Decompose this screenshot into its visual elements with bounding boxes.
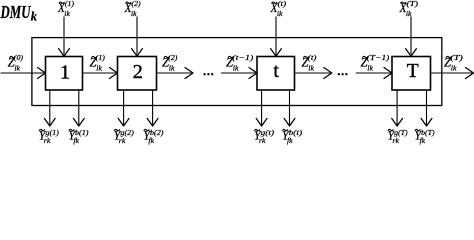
label Y_rk^g(2) xyxy=(114,127,135,145)
carry-over arrow Z_lk^(0) into box 1 xyxy=(1,68,46,79)
label Z_lk^(1) xyxy=(90,53,106,73)
svg-text:g(T): g(T) xyxy=(394,128,408,137)
svg-text:b(1): b(1) xyxy=(75,128,89,137)
ellipsis between box 2 and box t xyxy=(203,73,213,75)
svg-text:DMU: DMU xyxy=(0,2,31,22)
label Z_lk^(t) xyxy=(302,53,317,73)
outer system boundary box of DMU_k xyxy=(32,38,442,106)
svg-text:g(2): g(2) xyxy=(120,128,134,137)
svg-text:fk: fk xyxy=(148,136,154,145)
label Z_lk^(2) xyxy=(162,53,178,73)
svg-text:lk: lk xyxy=(14,64,20,73)
output arrow Y_fk^b(t) from box t xyxy=(284,91,295,127)
label Z_lk^(T-1) xyxy=(361,53,390,73)
svg-text:fk: fk xyxy=(420,136,426,145)
output arrow Y_fk^b(2) from box 2 xyxy=(147,91,158,127)
label X_ik^(1) xyxy=(57,0,74,18)
svg-text:lk: lk xyxy=(308,64,314,73)
label Y_fk^b(2) xyxy=(143,127,164,145)
process box T xyxy=(392,57,431,91)
input arrow X_ik^(t) into box t xyxy=(271,17,282,57)
svg-text:rk: rk xyxy=(44,136,51,145)
carry-over arrow Z_lk^(1) from box 1 to box 2 xyxy=(83,68,118,79)
input arrow X_ik^(2) into box 2 xyxy=(132,17,143,57)
svg-text:(t−1): (t−1) xyxy=(232,53,253,62)
svg-text:(0): (0) xyxy=(14,53,23,62)
label X_ik^(t) xyxy=(270,0,287,18)
DMU_k label xyxy=(0,2,38,23)
label Z_lk^(0) xyxy=(8,53,24,73)
output arrow Y_fk^b(1) from box 1 xyxy=(73,91,84,127)
svg-text:(t): (t) xyxy=(308,53,317,62)
svg-text:ik: ik xyxy=(64,9,70,18)
svg-text:t: t xyxy=(273,60,279,82)
svg-text:2: 2 xyxy=(133,61,143,83)
svg-text:T: T xyxy=(407,61,419,82)
label Y_fk^b(T) xyxy=(415,127,435,145)
svg-text:(2): (2) xyxy=(168,53,177,62)
svg-text:rk: rk xyxy=(393,136,400,145)
svg-text:1: 1 xyxy=(60,62,70,84)
svg-text:fk: fk xyxy=(73,136,79,145)
svg-text:ik: ik xyxy=(406,9,412,18)
svg-text:b(2): b(2) xyxy=(150,128,164,137)
svg-text:ik: ik xyxy=(131,9,137,18)
svg-text:lk: lk xyxy=(96,64,102,73)
input arrow X_ik^(T) into box T xyxy=(406,17,417,57)
label Y_rk^g(t) xyxy=(254,127,275,145)
ellipsis between box t and box T xyxy=(338,73,348,75)
output arrow Y_rk^g(1) from box 1 xyxy=(44,91,55,127)
svg-text:k: k xyxy=(31,9,38,23)
carry-over arrow Z_lk^(2) out of box 2 xyxy=(157,68,194,79)
svg-text:lk: lk xyxy=(367,64,373,73)
svg-text:ik: ik xyxy=(277,9,283,18)
label Y_fk^b(t) xyxy=(282,127,303,145)
svg-text:(T): (T) xyxy=(407,0,419,8)
svg-text:g(t): g(t) xyxy=(261,128,275,137)
svg-text:(1): (1) xyxy=(96,53,105,62)
svg-text:lk: lk xyxy=(169,64,175,73)
carry-over arrow Z_lk^(t-1) into box t xyxy=(221,68,257,79)
svg-text:b(t): b(t) xyxy=(289,128,303,137)
process box 1 xyxy=(46,57,83,91)
label Z_lk^(t-1) xyxy=(226,53,254,73)
svg-text:b(T): b(T) xyxy=(421,128,435,137)
output arrow Y_rk^g(t) from box t xyxy=(256,91,267,127)
svg-text:lk: lk xyxy=(233,64,239,73)
label Y_rk^g(T) xyxy=(388,127,408,145)
process box t xyxy=(257,57,295,91)
label X_ik^(T) xyxy=(399,0,419,18)
label X_ik^(2) xyxy=(124,0,141,18)
svg-text:(t): (t) xyxy=(278,0,287,8)
svg-text:g(1): g(1) xyxy=(45,128,59,137)
output arrow Y_rk^g(T) from box T xyxy=(392,91,403,127)
label Y_rk^g(1) xyxy=(39,127,60,145)
label Z_lk^(T) xyxy=(444,53,463,73)
output arrow Y_fk^b(T) from box T xyxy=(421,91,432,127)
svg-text:rk: rk xyxy=(119,136,126,145)
svg-text:(2): (2) xyxy=(132,0,141,8)
svg-text:rk: rk xyxy=(259,136,266,145)
svg-text:(T): (T) xyxy=(450,53,463,62)
svg-text:lk: lk xyxy=(451,64,457,73)
carry-over arrow Z_lk^(T) exiting DMU_k xyxy=(431,68,474,79)
input arrow X_ik^(1) into box 1 xyxy=(59,17,70,57)
svg-text:(1): (1) xyxy=(65,0,74,8)
process box 2 xyxy=(118,57,157,91)
output arrow Y_rk^g(2) from box 2 xyxy=(118,91,129,127)
carry-over arrow Z_lk^(t) out of box t xyxy=(295,68,332,79)
svg-text:(T−1): (T−1) xyxy=(367,53,390,62)
svg-text:fk: fk xyxy=(287,136,293,145)
label Y_fk^b(1) xyxy=(68,127,89,145)
carry-over arrow Z_lk^(T-1) into box T xyxy=(356,68,392,79)
